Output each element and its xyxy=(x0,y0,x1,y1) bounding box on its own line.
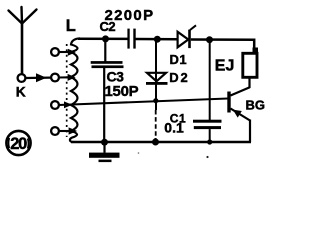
bottom rail wire xyxy=(71,141,251,144)
svg-text:L: L xyxy=(66,17,76,35)
wire D2 branch vertical xyxy=(155,39,157,110)
node junction dot D2 bottom xyxy=(152,139,159,146)
node junction dot D2 base xyxy=(153,98,158,103)
diode D2 xyxy=(146,73,168,85)
ground xyxy=(89,142,120,162)
svg-text:D1: D1 xyxy=(170,52,188,67)
wire tap 4 with plug arrow xyxy=(59,130,71,132)
node junction dot ground xyxy=(101,139,108,146)
svg-text:150P: 150P xyxy=(105,83,139,100)
svg-text:20: 20 xyxy=(10,135,27,153)
antenna xyxy=(9,7,37,24)
wire tap 1 with plug arrow xyxy=(59,51,71,53)
figure number 20 xyxy=(6,131,30,155)
svg-text:EJ: EJ xyxy=(215,58,235,75)
capacitor C3 xyxy=(91,39,124,142)
top rail wire right xyxy=(191,40,254,50)
svg-text:BG: BG xyxy=(246,98,266,113)
switch wiper arrow xyxy=(26,73,51,82)
tap terminal 2 xyxy=(51,74,59,82)
node junction dot C1 bottom xyxy=(207,139,212,144)
diode D1 xyxy=(178,25,196,48)
transistor BG xyxy=(227,87,250,142)
svg-text:C3: C3 xyxy=(107,68,125,84)
top rail wire left xyxy=(78,37,128,40)
tap terminal 4 xyxy=(51,127,59,135)
wire antenna lead xyxy=(21,22,24,74)
terminal K xyxy=(18,74,26,82)
tap terminal 1 xyxy=(51,48,59,56)
capacitor C2 xyxy=(127,29,135,49)
node junction dot D2 top xyxy=(154,36,161,43)
node junction dot C3 top xyxy=(102,35,109,42)
svg-text:C2: C2 xyxy=(100,19,116,34)
node junction dot C1 top xyxy=(206,36,213,43)
top rail wire middle xyxy=(136,38,178,41)
inductor L xyxy=(70,38,80,142)
svg-text:K: K xyxy=(16,84,26,99)
wire tap 3 wiper to base with plug arrow xyxy=(64,101,72,108)
earphone EJ xyxy=(243,48,258,89)
wire tap 2 with plug arrow xyxy=(59,76,71,78)
svg-text:D2: D2 xyxy=(169,70,189,85)
capacitor C1 branch xyxy=(193,40,222,142)
svg-text:0.1: 0.1 xyxy=(164,120,184,136)
scan speck xyxy=(138,152,140,154)
wire transistor base from wiper tap 3 xyxy=(59,99,228,106)
scan speck xyxy=(206,156,208,158)
switch link dotted line xyxy=(66,44,68,137)
tap terminal 3 xyxy=(51,101,59,109)
